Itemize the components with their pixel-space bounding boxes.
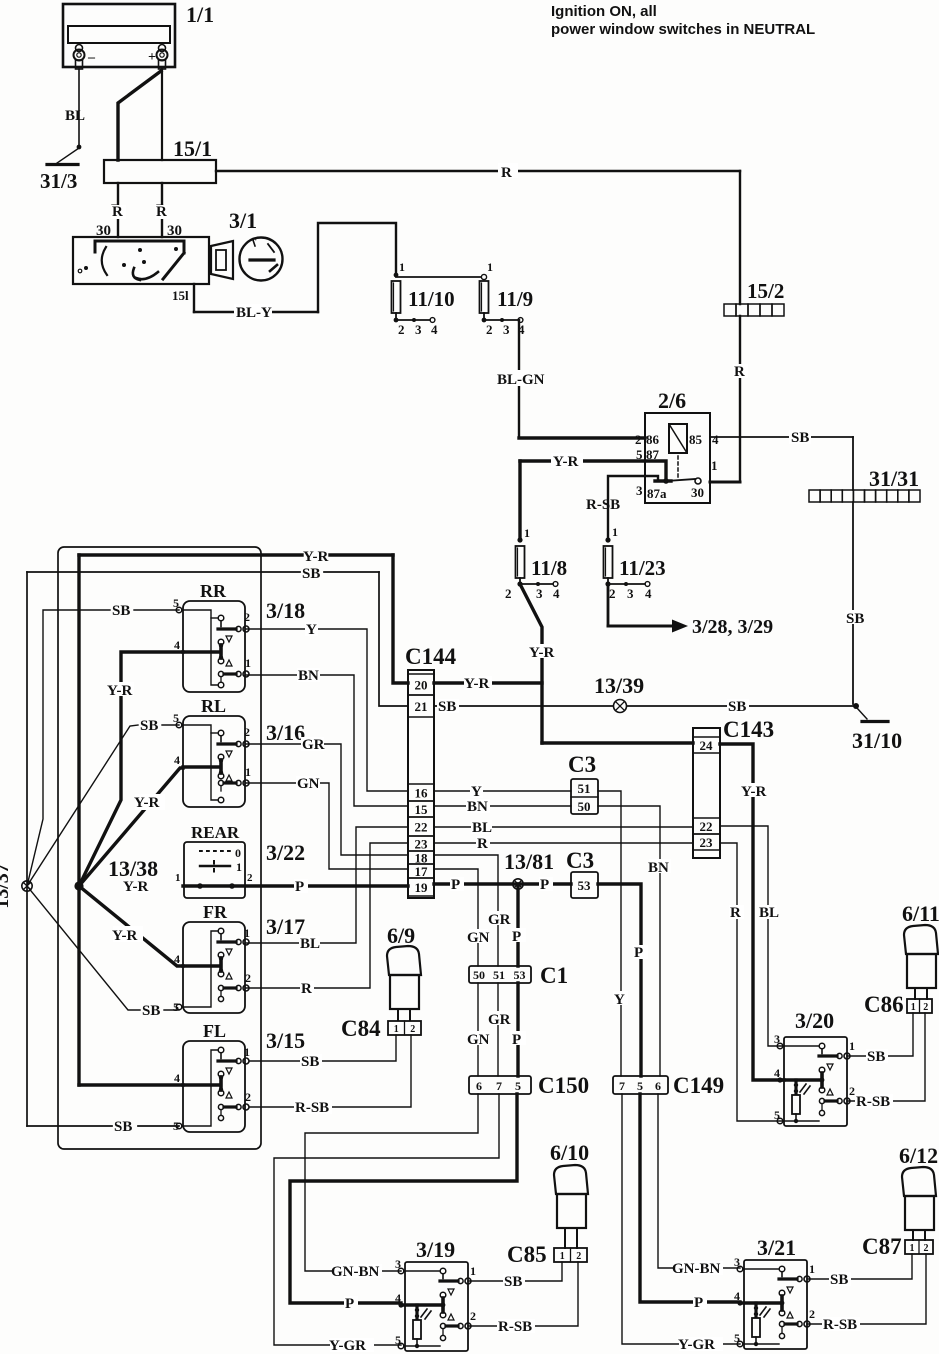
relay 2/6 contact 87a <box>655 478 695 484</box>
wire SB 13/37 to RR pin5 <box>27 603 179 886</box>
svg-text:SB: SB <box>140 718 158 734</box>
svg-text:power window switches in NEUTR: power window switches in NEUTRAL <box>551 21 815 38</box>
svg-text:3/15: 3/15 <box>266 1028 305 1053</box>
svg-text:86: 86 <box>646 432 660 447</box>
svg-text:Ignition ON, all: Ignition ON, all <box>551 3 657 20</box>
svg-text:R: R <box>301 981 312 997</box>
wire P C1-53 to C150-5 <box>511 983 526 1076</box>
ground 31/3 <box>40 148 79 193</box>
connector C86 <box>864 992 932 1017</box>
wire SB 3/20-1 to C86-1 <box>847 1013 913 1065</box>
svg-text:SB: SB <box>791 430 809 446</box>
svg-text:4: 4 <box>553 586 560 601</box>
svg-text:P: P <box>345 1296 354 1312</box>
svg-text:2: 2 <box>849 1084 855 1098</box>
battery 1/1 <box>63 2 214 69</box>
svg-text:6/10: 6/10 <box>550 1140 589 1165</box>
svg-text:1: 1 <box>612 525 618 539</box>
node 13/38 <box>74 856 158 891</box>
svg-text:BN: BN <box>467 799 488 815</box>
switch FL 3/15 <box>173 1021 305 1133</box>
svg-text:SB: SB <box>830 1272 848 1288</box>
svg-text:85: 85 <box>689 432 703 447</box>
svg-text:31/10: 31/10 <box>852 728 902 753</box>
switch RR 3/18 <box>173 581 305 692</box>
wire P C144-19 to C3-53 <box>434 877 571 893</box>
wire Y C149-7 to 3/21-5 <box>622 1094 740 1353</box>
svg-text:3/20: 3/20 <box>795 1008 834 1033</box>
svg-text:P: P <box>512 1032 521 1048</box>
wire GN C1-50 to C150-6 <box>467 983 490 1076</box>
svg-text:BN: BN <box>648 860 669 876</box>
svg-text:6/11: 6/11 <box>902 901 939 926</box>
svg-text:Y-R: Y-R <box>529 645 554 661</box>
svg-text:0: 0 <box>235 846 241 860</box>
svg-text:3: 3 <box>734 1255 740 1269</box>
motor 6/9 <box>387 923 421 1020</box>
svg-text:C85: C85 <box>507 1242 547 1267</box>
svg-text:Y-R: Y-R <box>553 454 578 470</box>
svg-text:4: 4 <box>174 952 180 966</box>
svg-text:2: 2 <box>635 432 642 447</box>
svg-text:16: 16 <box>415 786 429 801</box>
wire Y-R left rail <box>79 555 183 1085</box>
fuse 11/10 <box>392 260 455 337</box>
switch pack enclosure box <box>58 547 261 1149</box>
svg-text:GN-BN: GN-BN <box>331 1264 380 1280</box>
wire SB C144-21 ground line with lamp 13/39 <box>434 673 859 715</box>
svg-text:3: 3 <box>774 1032 780 1046</box>
svg-text:FL: FL <box>203 1021 226 1041</box>
wire Y-R C143-24 to 3/20-4 <box>720 744 784 1080</box>
svg-text:4: 4 <box>174 753 180 767</box>
svg-text:4: 4 <box>395 1291 401 1305</box>
svg-text:2: 2 <box>609 586 616 601</box>
svg-text:R: R <box>501 165 512 181</box>
svg-text:17: 17 <box>415 864 429 879</box>
svg-text:2: 2 <box>923 1002 928 1013</box>
svg-text:3/21: 3/21 <box>757 1235 796 1260</box>
svg-text:5: 5 <box>395 1333 401 1347</box>
svg-text:2: 2 <box>247 872 253 884</box>
svg-text:SB: SB <box>301 1054 319 1070</box>
svg-text:15/1: 15/1 <box>173 136 212 161</box>
wire SB 13/37 to FR pin5 <box>27 886 179 1019</box>
svg-text:GR: GR <box>302 737 325 753</box>
relay 2/6 box <box>645 388 710 503</box>
connector C87 <box>862 1234 933 1259</box>
svg-text:1: 1 <box>911 1002 916 1013</box>
wire R-SB relay 87a to 11/23 <box>586 476 658 540</box>
wire SB 3/15-1 to C84-1 <box>250 1035 396 1070</box>
svg-text:P: P <box>512 929 521 945</box>
svg-text:2: 2 <box>809 1307 815 1321</box>
wire Y C3-51 to C149-7 <box>598 791 628 1076</box>
wire R battery to fuse 15/1 left <box>111 71 161 218</box>
key symbol of 3/1 <box>211 237 283 281</box>
svg-text:3/18: 3/18 <box>266 598 305 623</box>
wire BL C144-22 to C143-22 <box>434 820 693 836</box>
wire GN C150-6 to 3/19-3 <box>305 1094 478 1280</box>
svg-text:6/9: 6/9 <box>387 923 415 948</box>
svg-text:BN: BN <box>298 668 319 684</box>
wire Y C144-16 to C3-51 <box>434 784 571 800</box>
svg-text:20: 20 <box>415 678 428 693</box>
svg-text:3/19: 3/19 <box>416 1237 455 1262</box>
svg-text:13/37: 13/37 <box>0 863 13 909</box>
wire GR 3/16-2 to C144-18 <box>246 737 408 855</box>
svg-text:3/16: 3/16 <box>266 720 305 745</box>
wire R 15/1 to 15/2 <box>216 163 740 304</box>
wire Y-R 13/38 to FR pin4 <box>79 886 183 966</box>
wire R 15/1 to ignition 30 right <box>155 183 182 239</box>
svg-text:P: P <box>295 879 304 895</box>
svg-text:SB: SB <box>142 1003 160 1019</box>
wire R 15/2 to relay 30 <box>695 316 748 484</box>
svg-text:C86: C86 <box>864 992 904 1017</box>
svg-text:6: 6 <box>655 1079 661 1093</box>
svg-text:P: P <box>540 877 549 893</box>
svg-text:6: 6 <box>476 1079 482 1093</box>
relay 2/6 pin labels <box>635 432 719 501</box>
svg-text:3: 3 <box>395 1257 401 1271</box>
svg-text:3/1: 3/1 <box>229 208 257 233</box>
svg-text:1: 1 <box>244 926 250 940</box>
svg-text:BL: BL <box>759 905 779 921</box>
svg-text:4: 4 <box>645 586 652 601</box>
svg-text:2: 2 <box>470 1309 476 1323</box>
svg-text:5: 5 <box>173 596 179 610</box>
connector C1 <box>469 963 568 988</box>
svg-text:53: 53 <box>514 968 526 982</box>
svg-text:13/38: 13/38 <box>108 856 158 881</box>
svg-text:GR: GR <box>488 912 511 928</box>
svg-text:Y-R: Y-R <box>112 928 137 944</box>
svg-text:1: 1 <box>394 1024 399 1035</box>
switch RL 3/16 <box>173 696 305 807</box>
svg-text:1: 1 <box>711 458 718 473</box>
svg-text:23: 23 <box>415 837 429 852</box>
svg-text:4: 4 <box>431 322 438 337</box>
svg-text:BL: BL <box>300 936 320 952</box>
svg-text:1: 1 <box>849 1039 855 1053</box>
svg-text:C150: C150 <box>538 1073 589 1098</box>
svg-text:5: 5 <box>734 1331 740 1345</box>
svg-text:15l: 15l <box>172 288 189 303</box>
wire GN 3/16-1 to C144-17 <box>246 776 408 869</box>
connector C144 <box>405 644 457 898</box>
svg-text:P: P <box>451 877 460 893</box>
svg-text:R: R <box>477 836 488 852</box>
svg-text:BL: BL <box>65 108 85 124</box>
svg-text:11/9: 11/9 <box>497 287 533 311</box>
svg-text:R: R <box>112 204 123 220</box>
svg-text:2: 2 <box>924 1243 929 1254</box>
wire R-SB 3/15-2 to C84-2 <box>250 1035 411 1116</box>
svg-text:R: R <box>730 905 741 921</box>
svg-text:SB: SB <box>112 603 130 619</box>
node 13/37 <box>0 863 32 909</box>
wire GR C150-7 to 3/19-5 <box>274 1094 499 1354</box>
svg-text:P: P <box>634 945 643 961</box>
svg-text:SB: SB <box>867 1049 885 1065</box>
fuse 11/9 <box>480 260 534 337</box>
svg-text:31/31: 31/31 <box>869 466 919 491</box>
svg-text:Y: Y <box>306 622 317 638</box>
svg-text:3: 3 <box>536 586 543 601</box>
wire BN C3-50 to C149-6 <box>598 806 671 1076</box>
svg-text:FR: FR <box>203 902 228 922</box>
svg-text:1: 1 <box>487 260 493 274</box>
svg-text:2: 2 <box>244 725 250 739</box>
svg-text:Y-R: Y-R <box>134 795 159 811</box>
wire SB relay 85 to 31/31 <box>710 430 853 490</box>
svg-text:50: 50 <box>473 968 485 982</box>
wire BL battery to ground <box>65 69 85 149</box>
svg-text:2/6: 2/6 <box>658 388 686 413</box>
svg-text:53: 53 <box>578 878 592 893</box>
svg-text:Y-R: Y-R <box>464 676 489 692</box>
svg-text:SB: SB <box>504 1274 522 1290</box>
svg-text:4: 4 <box>712 432 719 447</box>
svg-text:R-SB: R-SB <box>586 497 620 513</box>
svg-text:13/39: 13/39 <box>594 673 644 698</box>
switch 3/21 <box>734 1235 815 1349</box>
wire GR C1-51 to C150-7 <box>488 983 511 1076</box>
wire Y-R 11/8 to C143-24 <box>520 584 693 743</box>
svg-text:3/22: 3/22 <box>266 840 305 865</box>
wire SB left rail <box>27 572 179 1135</box>
svg-text:1: 1 <box>399 260 405 274</box>
svg-text:3: 3 <box>636 483 643 498</box>
svg-text:11/10: 11/10 <box>408 287 455 311</box>
wire SB 3/19-1 to C85-1 <box>468 1262 562 1290</box>
svg-text:51: 51 <box>493 968 505 982</box>
ignition switch 3/1 <box>73 208 257 284</box>
svg-text:BL-Y: BL-Y <box>236 305 272 321</box>
wire BL-GN 11/9 to relay 86 <box>497 320 645 438</box>
svg-text:3: 3 <box>627 586 634 601</box>
wire 15l BL-Y from ignition <box>172 223 396 321</box>
wire P C150-5 to 3/19-4 <box>290 1094 517 1312</box>
svg-text:RL: RL <box>201 696 226 716</box>
svg-text:2: 2 <box>505 586 512 601</box>
svg-text:5: 5 <box>173 1119 179 1133</box>
svg-text:REAR: REAR <box>191 823 240 842</box>
fusebox 15/1 <box>104 136 216 183</box>
relay 2/6 coil <box>669 424 687 477</box>
svg-text:BL-GN: BL-GN <box>497 372 545 388</box>
svg-text:7: 7 <box>496 1079 502 1093</box>
svg-text:GN: GN <box>467 1032 490 1048</box>
svg-text:GN: GN <box>297 776 320 792</box>
svg-text:C144: C144 <box>405 644 457 669</box>
wire BL C143-22 to 3/20-3 <box>720 826 784 1046</box>
svg-text:5: 5 <box>173 1000 179 1014</box>
svg-text:6/12: 6/12 <box>899 1143 938 1168</box>
wire BL 3/17-1 to C144-22 <box>246 827 408 952</box>
svg-text:1: 1 <box>245 765 251 779</box>
wire GR C144-18 to C1-51 <box>434 855 511 966</box>
wire SB 13/37 to RL pin5 <box>27 718 179 886</box>
wire BN C144-15 to C3-50 <box>434 799 571 815</box>
wire SB bus top <box>27 566 408 706</box>
svg-text:SB: SB <box>438 699 456 715</box>
svg-text:–: – <box>87 50 96 65</box>
svg-text:Y-GR: Y-GR <box>678 1337 715 1353</box>
svg-text:Y: Y <box>471 784 482 800</box>
svg-text:1: 1 <box>560 1251 565 1262</box>
svg-text:R-SB: R-SB <box>823 1317 857 1333</box>
svg-text:4: 4 <box>174 638 180 652</box>
wire P C149-5 to 3/21-4 <box>640 1094 740 1311</box>
wire P 13/81 down to C1-53 <box>511 884 526 966</box>
svg-text:C3: C3 <box>568 752 596 777</box>
svg-text:Y-R: Y-R <box>123 879 148 895</box>
svg-text:P: P <box>694 1295 703 1311</box>
switch FR 3/17 <box>173 902 305 1014</box>
svg-text:3: 3 <box>503 322 510 337</box>
svg-text:C3: C3 <box>566 848 594 873</box>
svg-text:GR: GR <box>488 1012 511 1028</box>
svg-text:C143: C143 <box>723 717 774 742</box>
wire Y-R relay 87 to 11/8 <box>520 453 666 540</box>
svg-text:1: 1 <box>244 1045 250 1059</box>
svg-text:2: 2 <box>245 1090 251 1104</box>
svg-text:1: 1 <box>910 1243 915 1254</box>
svg-text:Y: Y <box>614 992 625 1008</box>
wire R battery to fuse 15/1 right <box>156 69 167 218</box>
wire Y-R C144-20 to Y-R riser <box>434 676 542 692</box>
wire Y-R bus top <box>79 549 408 683</box>
svg-text:SB: SB <box>302 566 320 582</box>
svg-text:4: 4 <box>174 1071 180 1085</box>
motor 6/10 <box>550 1140 589 1248</box>
connector C85 <box>507 1242 587 1267</box>
wire 11/10 to 11/9 pin1 <box>396 274 487 279</box>
svg-text:Y-GR: Y-GR <box>329 1338 366 1354</box>
svg-text:GN: GN <box>467 930 490 946</box>
svg-text:5: 5 <box>637 1079 643 1093</box>
motor 6/11 <box>902 901 939 999</box>
svg-text:51: 51 <box>578 781 591 796</box>
svg-text:3: 3 <box>415 322 422 337</box>
wire SB 3/21-1 to C87-1 <box>807 1254 912 1288</box>
svg-text:13/81: 13/81 <box>504 849 554 874</box>
svg-text:15: 15 <box>415 802 429 817</box>
svg-text:1: 1 <box>809 1262 815 1276</box>
svg-text:R-SB: R-SB <box>498 1319 532 1335</box>
svg-text:BL: BL <box>472 820 492 836</box>
svg-text:19: 19 <box>415 880 429 895</box>
wire BN C149-6 to 3/21-3 <box>658 1094 740 1277</box>
svg-text:SB: SB <box>728 699 746 715</box>
connector C143 <box>693 717 774 858</box>
svg-text:": " <box>252 237 258 248</box>
svg-text:5: 5 <box>173 711 179 725</box>
wire R C143-23 to 3/20-5 <box>720 843 784 1121</box>
svg-text:5: 5 <box>515 1079 521 1093</box>
svg-text:11/23: 11/23 <box>619 556 666 580</box>
svg-text:22: 22 <box>415 820 428 835</box>
wire SB 31/31 to ground junction <box>845 502 864 704</box>
wire R 3/17-2 to C144-23 <box>246 843 408 997</box>
svg-text:15/2: 15/2 <box>747 279 784 303</box>
wire R-SB 3/21-2 to C87-2 <box>807 1254 926 1333</box>
wire P C3-53 to C149-5 <box>598 884 648 1076</box>
svg-text:SB: SB <box>114 1119 132 1135</box>
svg-text:2: 2 <box>244 610 250 624</box>
svg-text:1: 1 <box>470 1264 476 1278</box>
wire Y-R 13/38 to RL pin4 <box>79 768 183 886</box>
ground 31/10 <box>852 708 902 753</box>
svg-text:+: + <box>148 50 156 65</box>
svg-text:2: 2 <box>245 971 251 985</box>
wire R C144-23 to C143-23 <box>434 836 693 852</box>
wire R 15/1 to ignition 30 left <box>96 183 126 239</box>
svg-text:Y-R: Y-R <box>107 683 132 699</box>
arrow to 3/28 3/29 <box>608 584 773 638</box>
svg-text:1/1: 1/1 <box>186 2 214 27</box>
connector C84 <box>341 1016 421 1041</box>
connector C150 <box>469 1073 589 1098</box>
svg-text:Y-R: Y-R <box>741 784 766 800</box>
svg-text:5: 5 <box>774 1108 780 1122</box>
fuse 11/23 <box>604 525 666 601</box>
wire GN C144-17 to C1-50 <box>434 869 490 966</box>
svg-text:C149: C149 <box>673 1073 724 1098</box>
wire R-SB 3/19-2 to C85-2 <box>468 1262 578 1335</box>
fuse 11/8 <box>505 526 567 601</box>
svg-text:R: R <box>734 364 745 380</box>
svg-text:1: 1 <box>245 656 251 670</box>
svg-text:SB: SB <box>846 611 864 627</box>
svg-text:2: 2 <box>410 1024 415 1035</box>
connector C149 <box>613 1073 724 1098</box>
svg-text:2: 2 <box>576 1251 581 1262</box>
svg-text:1: 1 <box>236 860 242 874</box>
wire P through REAR <box>123 879 408 895</box>
svg-text:1: 1 <box>524 526 530 540</box>
connector C3 upper <box>568 752 598 814</box>
svg-text:R-SB: R-SB <box>295 1100 329 1116</box>
wire BN 3/18-1 to C144-15 <box>246 668 408 806</box>
svg-text:R: R <box>156 204 167 220</box>
svg-text:30: 30 <box>691 485 704 500</box>
node 13/81 <box>504 849 554 889</box>
connector 15/2 <box>724 279 784 316</box>
svg-text:23: 23 <box>700 835 714 850</box>
svg-text:11/8: 11/8 <box>531 556 567 580</box>
svg-text:2: 2 <box>398 322 405 337</box>
svg-text:RR: RR <box>200 581 227 601</box>
svg-text:87a: 87a <box>647 486 667 501</box>
svg-text:21: 21 <box>415 699 428 714</box>
switch REAR 3/22 <box>175 823 305 898</box>
connector 31/31 <box>809 466 920 502</box>
svg-text:1: 1 <box>175 872 181 884</box>
wire R-SB 3/20-2 to C86-2 <box>847 1013 925 1110</box>
motor 6/12 <box>899 1143 938 1240</box>
svg-text:50: 50 <box>578 799 591 814</box>
svg-text:4: 4 <box>774 1066 780 1080</box>
svg-text:24: 24 <box>700 738 714 753</box>
svg-text:C1: C1 <box>540 963 568 988</box>
svg-text:3/28, 3/29: 3/28, 3/29 <box>692 616 773 638</box>
switch 3/19 <box>395 1237 476 1351</box>
svg-text:C84: C84 <box>341 1016 381 1041</box>
svg-text:C87: C87 <box>862 1234 902 1259</box>
